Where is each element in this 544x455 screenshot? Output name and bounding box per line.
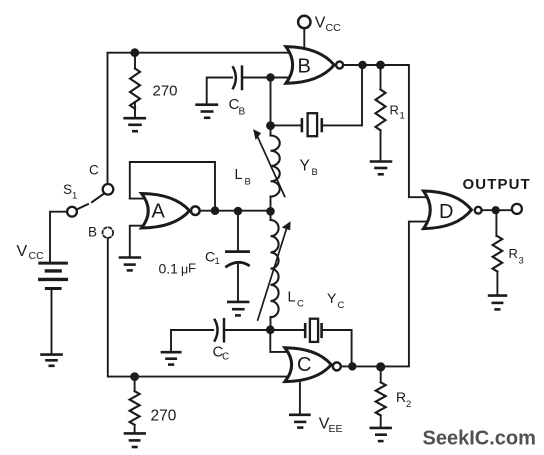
svg-text:F: F <box>188 261 196 276</box>
svg-text:Y: Y <box>300 158 310 175</box>
svg-text:L: L <box>288 290 296 306</box>
svg-text:EE: EE <box>329 423 343 435</box>
svg-text:1: 1 <box>400 111 405 122</box>
svg-text:270: 270 <box>153 83 178 100</box>
svg-text:B: B <box>298 56 311 78</box>
svg-text:L: L <box>235 167 243 183</box>
svg-text:SeekIC.com: SeekIC.com <box>423 428 536 450</box>
svg-text:A: A <box>152 201 166 223</box>
svg-text:B: B <box>88 225 97 240</box>
svg-text:R: R <box>390 103 399 118</box>
svg-text:C: C <box>297 299 304 310</box>
svg-text:C: C <box>222 352 229 363</box>
svg-text:C: C <box>338 300 345 311</box>
svg-text:B: B <box>239 107 246 118</box>
svg-text:Y: Y <box>327 290 337 306</box>
svg-text:1: 1 <box>72 191 77 202</box>
svg-text:270: 270 <box>151 408 177 425</box>
svg-text:0.1: 0.1 <box>159 260 179 276</box>
svg-text:3: 3 <box>519 256 524 267</box>
svg-text:S: S <box>63 182 72 197</box>
svg-text:B: B <box>312 167 318 178</box>
svg-text:2: 2 <box>406 399 411 410</box>
svg-text:C: C <box>297 354 311 376</box>
svg-text:R: R <box>509 246 518 261</box>
svg-text:CC: CC <box>29 250 45 262</box>
svg-text:OUTPUT: OUTPUT <box>463 176 531 193</box>
svg-text:C: C <box>89 163 99 178</box>
svg-text:1: 1 <box>215 256 220 267</box>
svg-text:V: V <box>17 243 28 260</box>
svg-text:D: D <box>439 201 453 223</box>
svg-text:B: B <box>245 176 251 187</box>
svg-text:CC: CC <box>326 22 342 34</box>
svg-text:V: V <box>315 15 326 32</box>
svg-text:R: R <box>396 389 406 405</box>
